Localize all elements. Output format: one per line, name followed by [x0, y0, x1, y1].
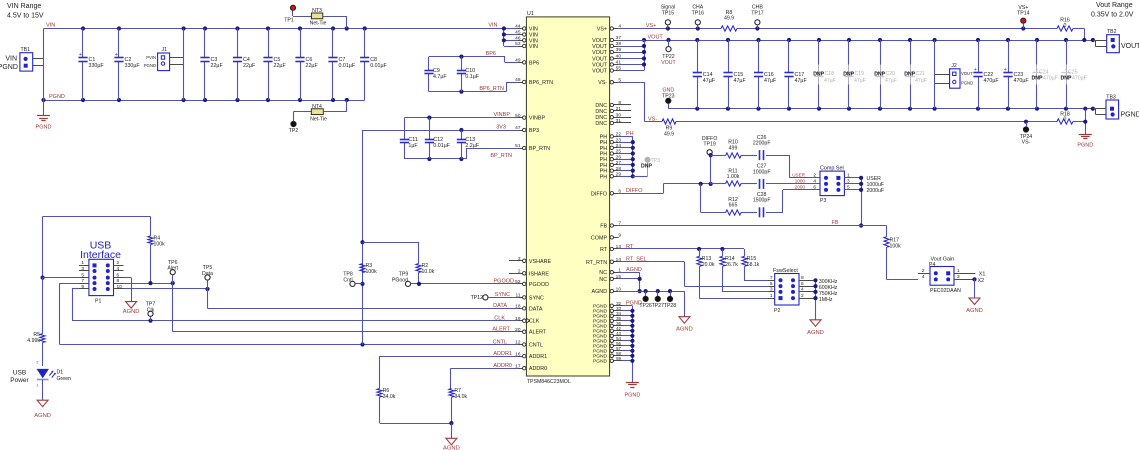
- svg-text:1.00k: 1.00k: [727, 174, 740, 180]
- wire ALERT from P1 pin8: [124, 281, 518, 333]
- wire VOUT pin bus: [619, 40, 646, 71]
- svg-text:FswSelect: FswSelect: [773, 268, 798, 274]
- wire VS- net: [619, 82, 1086, 124]
- resistor R18: [1057, 111, 1073, 124]
- svg-text:470µF: 470µF: [1043, 76, 1058, 82]
- svg-text:C5: C5: [274, 57, 281, 63]
- svg-text:C7: C7: [339, 57, 346, 63]
- text Vout Range annotation: [1091, 2, 1134, 19]
- svg-text:FB: FB: [831, 220, 838, 226]
- svg-text:AGND: AGND: [626, 267, 642, 273]
- svg-text:NT4: NT4: [312, 104, 322, 110]
- svg-text:PH: PH: [600, 174, 608, 180]
- capacitor C2: [114, 29, 140, 101]
- svg-text:100k: 100k: [366, 269, 378, 275]
- svg-text:Alert: Alert: [167, 266, 178, 272]
- pin 32 PGND: [593, 301, 622, 310]
- svg-text:470µF: 470µF: [1014, 78, 1030, 84]
- svg-text:4.5V to 15V: 4.5V to 15V: [7, 13, 44, 20]
- capacitor C4: [233, 29, 256, 101]
- capacitor C3: [200, 29, 223, 101]
- testpoint TP16: [692, 5, 705, 29]
- svg-text:DNP: DNP: [641, 164, 652, 170]
- svg-text:6: 6: [813, 185, 816, 191]
- svg-text:VS-: VS-: [648, 116, 657, 122]
- svg-text:AGND: AGND: [123, 309, 140, 315]
- testpoint TP9: [392, 272, 419, 287]
- testpoint TP2: [289, 121, 299, 133]
- terminal block TB1: [0, 47, 44, 71]
- pin 17 ADDR0: [515, 363, 547, 372]
- svg-text:330µF: 330µF: [125, 63, 141, 69]
- ground AGND at TP row: [676, 317, 693, 333]
- svg-text:100k: 100k: [890, 244, 902, 250]
- svg-text:VOUT: VOUT: [648, 35, 664, 41]
- svg-text:1: 1: [847, 173, 850, 179]
- pin 40 VOUT: [592, 54, 621, 63]
- svg-text:13: 13: [616, 244, 622, 250]
- pin 45 VIN: [515, 30, 538, 39]
- resistor R15: [742, 249, 767, 281]
- svg-text:PGND: PGND: [49, 94, 65, 100]
- svg-text:C20: C20: [886, 71, 896, 77]
- svg-text:VOUT: VOUT: [1121, 43, 1139, 50]
- svg-text:0.1µF: 0.1µF: [465, 74, 479, 80]
- pin 38 VOUT: [592, 41, 621, 50]
- ground AGND at D1: [34, 400, 51, 419]
- pin 1 NC: [599, 267, 621, 276]
- svg-text:49.9: 49.9: [724, 16, 734, 22]
- svg-text:CNTL: CNTL: [529, 343, 543, 349]
- pin 18 DATA: [515, 304, 543, 313]
- svg-text:14: 14: [616, 257, 622, 263]
- svg-text:P2: P2: [774, 308, 780, 314]
- svg-text:RT: RT: [600, 247, 608, 253]
- ground PGND at TB1: [36, 100, 52, 131]
- svg-text:0.01µF: 0.01µF: [370, 63, 387, 69]
- svg-text:1: 1: [81, 260, 84, 266]
- pin 12 CNTL: [515, 340, 543, 349]
- svg-text:2: 2: [922, 268, 925, 274]
- svg-text:22µF: 22µF: [274, 63, 287, 69]
- svg-text:ALERT: ALERT: [529, 330, 547, 336]
- wire PH bus: [619, 136, 648, 178]
- capacitor C21 DNP: [904, 40, 927, 109]
- jumper J2: [935, 40, 974, 109]
- svg-text:5: 5: [81, 272, 84, 278]
- svg-text:Data: Data: [202, 271, 213, 277]
- wire AGND pin10 net: [619, 289, 685, 317]
- svg-text:USER: USER: [792, 173, 805, 178]
- svg-text:TP16: TP16: [692, 10, 705, 16]
- svg-text:P4: P4: [929, 262, 935, 268]
- svg-text:P3: P3: [820, 198, 826, 204]
- svg-text:BP_RTN: BP_RTN: [490, 153, 512, 159]
- svg-text:3: 3: [518, 256, 521, 262]
- resistor R6: [377, 388, 452, 424]
- pin 53 VIN: [515, 41, 538, 50]
- svg-text:TP12: TP12: [471, 295, 484, 301]
- pin 59 PGND: [593, 356, 622, 365]
- pin 43 PGND: [593, 331, 622, 340]
- svg-text:49.9: 49.9: [664, 131, 674, 137]
- capacitor C8: [360, 29, 387, 101]
- testpoint TP28: [664, 291, 677, 309]
- svg-text:DIFFO: DIFFO: [626, 188, 643, 194]
- wire ADDR1 net: [380, 351, 518, 389]
- wire 3V3 net: [363, 125, 518, 133]
- svg-text:3V3: 3V3: [496, 125, 506, 131]
- capacitor C18 DNP: [813, 40, 836, 109]
- svg-text:NC: NC: [599, 277, 607, 283]
- pin 57 PGND: [593, 346, 622, 355]
- wire FB net: [619, 220, 887, 226]
- svg-text:Green: Green: [57, 376, 72, 382]
- ground AGND at P2: [807, 320, 824, 336]
- pin 44 VIN: [515, 24, 538, 33]
- svg-text:DNC: DNC: [595, 121, 607, 127]
- svg-text:2: 2: [801, 293, 804, 299]
- svg-text:TPSM846C23MOL: TPSM846C23MOL: [527, 379, 571, 385]
- svg-text:TP26: TP26: [639, 303, 652, 309]
- svg-text:TP2: TP2: [289, 128, 299, 134]
- svg-text:BP6_RTN: BP6_RTN: [479, 86, 504, 92]
- pin 26 PH: [600, 154, 622, 163]
- svg-text:PGND: PGND: [144, 63, 156, 68]
- svg-text:499: 499: [729, 145, 738, 151]
- capacitor C19 DNP: [843, 40, 866, 109]
- svg-text:15: 15: [616, 274, 622, 280]
- svg-text:PGND: PGND: [624, 393, 640, 399]
- capacitor C1: [78, 29, 104, 101]
- wire PGOOD net: [417, 279, 517, 286]
- testpoint TP14: [1017, 5, 1030, 29]
- svg-text:BP_RTN: BP_RTN: [529, 146, 550, 152]
- svg-text:DNP: DNP: [1032, 76, 1043, 82]
- svg-text:+: +: [79, 52, 82, 58]
- pin 28 PH: [600, 166, 622, 175]
- text USB Power: [10, 370, 29, 384]
- svg-text:TB3: TB3: [1106, 94, 1116, 100]
- svg-text:VOUT: VOUT: [592, 50, 608, 56]
- svg-text:VIN: VIN: [5, 56, 17, 63]
- pin 41 VOUT: [592, 60, 621, 69]
- svg-text:27: 27: [616, 160, 622, 166]
- header P3 Comp Sel: [820, 166, 844, 204]
- resistor R17: [884, 226, 918, 280]
- svg-text:47µF: 47µF: [915, 78, 927, 84]
- capacitor C22: [973, 40, 999, 109]
- svg-text:6: 6: [117, 272, 120, 278]
- svg-text:DATA: DATA: [529, 306, 543, 312]
- svg-text:RT: RT: [626, 244, 634, 250]
- svg-text:C14: C14: [703, 72, 713, 78]
- svg-text:3: 3: [957, 274, 960, 280]
- net label PGND pin32: [626, 301, 642, 307]
- svg-text:ADDR1: ADDR1: [493, 351, 512, 357]
- svg-text:22µF: 22µF: [211, 63, 224, 69]
- pin 11 SYNC: [516, 293, 544, 302]
- wire P1 pin6 to AGND: [124, 278, 132, 302]
- testpoint TP26: [639, 291, 652, 309]
- svg-text:BP3: BP3: [529, 128, 539, 134]
- svg-text:DNC: DNC: [595, 109, 607, 115]
- testpoint TP19: [702, 136, 718, 155]
- svg-text:+: +: [974, 67, 977, 73]
- svg-text:C3: C3: [211, 57, 218, 63]
- wire DATA from P1 pin10: [124, 287, 518, 309]
- wire comp row2: [711, 183, 820, 185]
- svg-text:PVIN: PVIN: [146, 55, 156, 60]
- svg-text:VS+: VS+: [646, 23, 657, 29]
- svg-text:PGND: PGND: [1077, 143, 1093, 149]
- testpoint TP22: [661, 40, 676, 66]
- svg-text:4: 4: [801, 287, 804, 293]
- IC U1 TPSM846C23MOL body: [526, 11, 609, 385]
- svg-text:VS-: VS-: [598, 80, 607, 86]
- wire P2 common to AGND: [813, 278, 837, 320]
- svg-text:2: 2: [813, 173, 816, 179]
- svg-text:30: 30: [616, 112, 622, 118]
- svg-text:3: 3: [847, 179, 850, 185]
- svg-text:10.0k: 10.0k: [422, 269, 435, 275]
- svg-text:9: 9: [81, 284, 84, 290]
- svg-text:TB2: TB2: [1107, 29, 1117, 35]
- svg-text:5: 5: [770, 281, 773, 287]
- capacitor C23: [1003, 40, 1029, 109]
- pin 2 ISHARE: [509, 269, 549, 278]
- svg-text:C21: C21: [916, 71, 926, 77]
- svg-text:AGND: AGND: [966, 308, 983, 314]
- svg-text:BP6: BP6: [486, 51, 496, 57]
- svg-text:ALERT: ALERT: [492, 327, 510, 333]
- svg-text:47µF: 47µF: [764, 78, 777, 84]
- pin 3 VSHARE: [509, 256, 551, 265]
- pin 29 PH: [600, 172, 622, 181]
- resistor R7: [449, 388, 468, 438]
- wire CLK from P1 pin9: [72, 289, 517, 323]
- wire VS+ rail: [619, 23, 1085, 40]
- svg-text:22µF: 22µF: [306, 63, 319, 69]
- pin 20 ALERT: [515, 327, 547, 336]
- pin 15 NC: [599, 274, 621, 283]
- capacitor C20 DNP: [874, 40, 897, 109]
- svg-text:3: 3: [770, 287, 773, 293]
- wire R2 branch: [363, 242, 420, 244]
- wire BP6_RTN net: [429, 82, 517, 94]
- pin 27 PH: [600, 160, 622, 169]
- svg-text:47µF: 47µF: [795, 78, 808, 84]
- resistor R4: [148, 216, 165, 283]
- capacitor C15: [723, 40, 746, 109]
- capacitor C12: [425, 118, 451, 159]
- pin 49 BP6: [515, 58, 539, 67]
- terminal block TB3: [1093, 94, 1139, 119]
- svg-text:ADDR0: ADDR0: [529, 366, 547, 372]
- svg-text:C18: C18: [825, 71, 835, 77]
- svg-text:AGND: AGND: [676, 327, 693, 333]
- svg-text:X2: X2: [978, 278, 985, 284]
- svg-text:C19: C19: [855, 71, 865, 77]
- pin 46 VIN: [515, 36, 538, 45]
- svg-text:21: 21: [616, 106, 622, 112]
- wire VIN rail: [44, 23, 504, 31]
- pin 24 PH: [600, 143, 622, 152]
- svg-text:PGOOD: PGOOD: [529, 282, 549, 288]
- svg-text:DNP: DNP: [843, 72, 854, 78]
- svg-text:10: 10: [117, 284, 123, 290]
- ground AGND at P1: [123, 302, 140, 316]
- svg-text:34.0k: 34.0k: [383, 394, 396, 400]
- svg-text:C22: C22: [984, 72, 994, 78]
- svg-text:20.0k: 20.0k: [702, 262, 715, 268]
- resistor R3: [360, 263, 377, 275]
- svg-text:VOUT: VOUT: [661, 60, 676, 66]
- svg-text:0.01µF: 0.01µF: [339, 63, 356, 69]
- testpoint TP27: [652, 291, 665, 309]
- svg-text:AGND: AGND: [807, 330, 824, 336]
- pin 8 DNC: [595, 100, 631, 109]
- svg-text:C15: C15: [734, 72, 744, 78]
- svg-text:PGND: PGND: [1121, 111, 1139, 118]
- svg-text:DIFFO: DIFFO: [591, 191, 607, 197]
- svg-text:1000pF: 1000pF: [753, 169, 771, 175]
- testpoint TP17: [751, 5, 764, 29]
- svg-text:PGND: PGND: [0, 64, 18, 71]
- pin 47 BP3: [515, 125, 539, 134]
- svg-text:31: 31: [616, 118, 622, 124]
- net-tie NT3: [293, 8, 347, 29]
- svg-text:NC: NC: [599, 270, 607, 276]
- svg-text:34.0k: 34.0k: [454, 394, 467, 400]
- svg-text:4: 4: [922, 274, 925, 280]
- svg-text:RT_RTN: RT_RTN: [586, 260, 607, 266]
- svg-text:C16: C16: [764, 72, 774, 78]
- testpoint TP3 DNP: [641, 157, 660, 176]
- svg-text:DNP: DNP: [904, 72, 915, 78]
- resistor R14: [720, 249, 767, 292]
- pin 30 DNC: [595, 112, 631, 121]
- svg-text:24: 24: [616, 143, 622, 149]
- resistor R10: [726, 140, 742, 159]
- svg-text:C1: C1: [89, 57, 96, 63]
- svg-text:AGND: AGND: [34, 413, 51, 419]
- svg-text:COMP: COMP: [591, 235, 608, 241]
- svg-text:AGND: AGND: [443, 445, 460, 450]
- svg-text:PGND: PGND: [36, 125, 52, 131]
- testpoint TP12 and SYNC net: [471, 292, 518, 301]
- pin 9 COMP: [591, 233, 621, 242]
- svg-text:3: 3: [81, 266, 84, 272]
- header P1: [79, 259, 124, 304]
- pin 31 DNC: [595, 118, 631, 127]
- capacitor C11: [400, 118, 419, 159]
- pin 16 ADDR1: [515, 351, 547, 360]
- testpoint TP24: [1020, 122, 1033, 146]
- resistor R11: [726, 168, 742, 186]
- pin 48 BP6_RTN: [515, 77, 553, 86]
- wire BP_RTN net: [404, 148, 517, 161]
- svg-text:U1: U1: [527, 11, 534, 17]
- svg-text:PGOOD: PGOOD: [494, 279, 515, 285]
- svg-text:CLK: CLK: [529, 319, 540, 325]
- svg-text:BP6: BP6: [529, 60, 539, 66]
- svg-text:2.2µF: 2.2µF: [465, 143, 479, 149]
- svg-text:C23: C23: [1014, 72, 1024, 78]
- svg-text:TB1: TB1: [21, 47, 31, 53]
- svg-text:VIN: VIN: [488, 23, 497, 29]
- svg-text:CLK: CLK: [494, 316, 505, 322]
- svg-text:8: 8: [801, 275, 804, 281]
- pin 56 PGND: [593, 341, 622, 350]
- svg-text:1000: 1000: [795, 179, 806, 184]
- svg-text:TP19: TP19: [703, 142, 716, 148]
- svg-text:C17: C17: [795, 72, 805, 78]
- svg-text:2: 2: [117, 260, 120, 266]
- wire RT_SEL net: [619, 262, 767, 287]
- testpoint TP8: [343, 272, 362, 287]
- svg-text:47µF: 47µF: [824, 78, 836, 84]
- svg-text:TP28: TP28: [664, 303, 677, 309]
- capacitor C16: [754, 40, 777, 109]
- svg-text:DATA: DATA: [493, 303, 507, 309]
- wire P4 to AGND: [972, 277, 976, 298]
- terminal block TB2: [1093, 29, 1139, 53]
- svg-text:26.7k: 26.7k: [725, 262, 738, 268]
- svg-text:Cntl: Cntl: [343, 277, 352, 283]
- jumper J1: [144, 47, 184, 71]
- svg-text:VIN: VIN: [529, 44, 538, 50]
- svg-text:0: 0: [1064, 116, 1067, 122]
- svg-text:P1: P1: [95, 299, 101, 305]
- svg-text:Net-Tie: Net-Tie: [310, 116, 327, 122]
- capacitor C9: [424, 57, 447, 92]
- pin 21 DNC: [595, 106, 631, 115]
- svg-text:VOUT: VOUT: [961, 71, 973, 76]
- svg-text:VIN Range: VIN Range: [7, 3, 41, 10]
- ground PGND below IC: [624, 383, 640, 399]
- svg-text:470µF: 470µF: [1072, 76, 1087, 82]
- net-tie NT4: [294, 100, 347, 122]
- svg-text:47µF: 47µF: [703, 78, 716, 84]
- wire VIN pin bus: [488, 23, 517, 47]
- wire ADDR0 net: [451, 363, 518, 389]
- ground AGND at P4: [966, 298, 983, 314]
- svg-text:X1: X1: [979, 271, 986, 277]
- svg-text:47µF: 47µF: [854, 78, 866, 84]
- svg-text:0: 0: [1064, 23, 1067, 29]
- svg-text:59: 59: [616, 356, 621, 361]
- svg-text:TP15: TP15: [662, 10, 675, 16]
- svg-text:+: +: [115, 52, 118, 58]
- svg-text:ADDR1: ADDR1: [529, 354, 547, 360]
- svg-text:Net-Tie: Net-Tie: [310, 20, 327, 26]
- svg-text:1MHz: 1MHz: [819, 297, 833, 303]
- svg-text:4.99k: 4.99k: [27, 338, 40, 344]
- svg-text:4: 4: [117, 266, 120, 272]
- svg-text:2200pF: 2200pF: [753, 141, 771, 147]
- pin 10 AGND: [592, 286, 622, 295]
- wire VOUT rail: [642, 35, 1095, 43]
- resistor R2: [416, 242, 435, 284]
- header P2 FswSelect: [767, 268, 815, 314]
- capacitor C14: [693, 40, 716, 109]
- wire J1 riser: [183, 29, 185, 101]
- wire BP6 net: [429, 51, 517, 62]
- svg-text:Power: Power: [10, 377, 29, 384]
- svg-text:J2: J2: [951, 63, 957, 69]
- svg-text:52: 52: [515, 279, 521, 285]
